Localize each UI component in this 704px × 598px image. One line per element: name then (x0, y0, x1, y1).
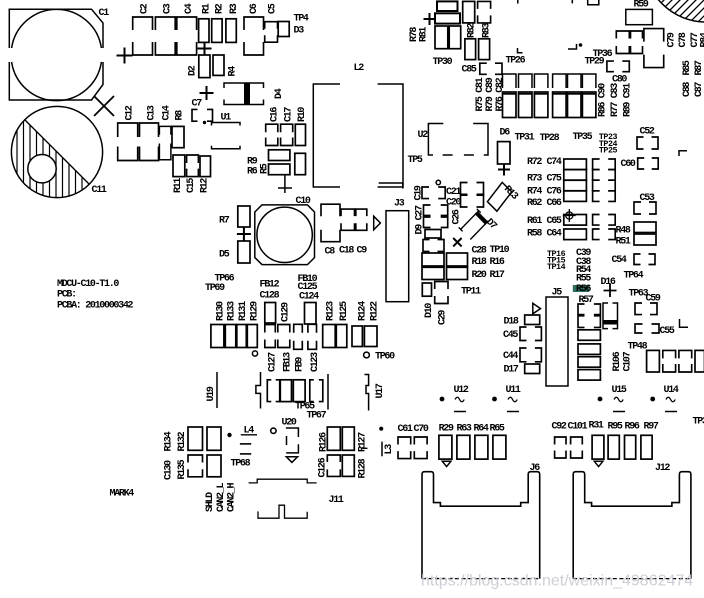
capacitor C17 (281, 124, 293, 132)
svg-text:D6: D6 (500, 128, 511, 139)
pad 1 right edge (647, 350, 660, 372)
svg-text:R10: R10 (297, 107, 308, 122)
pad column 1 upper bracket (503, 74, 517, 88)
connector J11 bottom edge (258, 505, 307, 518)
capacitor C130 pad (188, 455, 203, 463)
svg-text:R125: R125 (339, 301, 350, 321)
resistor R95 (608, 435, 619, 459)
capacitor C11 circle (11, 106, 102, 197)
svg-text:D5: D5 (219, 250, 230, 261)
svg-text:U19: U19 (206, 386, 217, 401)
capacitor C64 bracket (593, 229, 600, 240)
svg-text:R86 C90: R86 C90 (598, 83, 609, 117)
svg-text:C21: C21 (446, 187, 461, 198)
svg-text:D18: D18 (504, 317, 519, 328)
capacitor bracket row1 right of J5 (578, 304, 585, 315)
capacitor C124 pad (305, 303, 317, 325)
svg-text:R123: R123 (326, 301, 337, 321)
FB13 pad (278, 325, 290, 333)
capacitor C1 circle (12, 9, 102, 100)
svg-text:TP26: TP26 (506, 56, 526, 67)
svg-text:C45: C45 (503, 330, 518, 341)
svg-text:C44: C44 (503, 351, 518, 362)
resistor R96 (625, 435, 636, 459)
svg-text:R7: R7 (219, 216, 230, 227)
svg-text:MDCU-C10-T1.0: MDCU-C10-T1.0 (57, 279, 119, 290)
svg-text:R20: R20 (472, 270, 487, 281)
capacitor C7 (192, 109, 198, 121)
svg-text:FB13: FB13 (283, 352, 294, 372)
svg-text:D16: D16 (601, 277, 616, 288)
svg-text:R31: R31 (589, 421, 604, 432)
corner mark right of C55 (680, 319, 689, 327)
svg-text:C2: C2 (140, 3, 151, 14)
resistor pad row6 right of J5 (578, 370, 600, 381)
resistor R73 pad (564, 170, 587, 181)
svg-text:R122: R122 (370, 301, 381, 321)
capacitor C1 outline square (9, 9, 103, 100)
pin1 ring left of U20 (271, 428, 276, 433)
svg-text:R5: R5 (260, 163, 271, 174)
C129 pad (265, 325, 276, 333)
arrow marker right of C9 (374, 216, 381, 230)
svg-text:TP28: TP28 (540, 133, 560, 144)
pad column 4 lower pad (553, 92, 567, 118)
capacitor C101 (571, 437, 583, 445)
plus mark above D2 (198, 42, 212, 56)
diode D4 (224, 83, 264, 88)
svg-text:CAN2_L: CAN2_L (216, 482, 227, 512)
svg-text:R96: R96 (625, 422, 640, 433)
inductor L2 (313, 84, 403, 187)
svg-text:C75: C75 (547, 174, 562, 185)
resistor R61 pad (564, 215, 587, 226)
capacitor C21 bracket (461, 183, 468, 195)
X mark near C28 (453, 238, 461, 246)
svg-text:R82: R82 (467, 23, 478, 38)
resistor R9 block (269, 150, 290, 161)
svg-text:C128: C128 (260, 291, 280, 302)
svg-text:PCB:: PCB: (57, 290, 76, 301)
corner mark right of C60 (679, 151, 687, 156)
svg-text:R77 C83: R77 C83 (610, 83, 621, 117)
capacitor C2 (133, 17, 153, 30)
resistor R124 (352, 326, 362, 347)
capacitor C4 (177, 17, 197, 30)
svg-text:U11: U11 (506, 385, 521, 396)
pad column 6 upper bracket (582, 74, 596, 88)
resistor R2 (212, 19, 222, 43)
plus below D6 (498, 164, 510, 176)
svg-text:C3: C3 (162, 3, 173, 14)
svg-text:R16: R16 (490, 257, 505, 268)
C7 pin1 dot (203, 121, 206, 124)
svg-text:J11: J11 (329, 495, 344, 506)
svg-text:C79: C79 (667, 32, 678, 47)
pad column 6 lower pad (582, 92, 596, 118)
svg-text:TP11: TP11 (461, 287, 481, 298)
resistor R83 lower (479, 39, 490, 60)
capacitor C70 (414, 437, 427, 445)
capacitor C20 bracket (461, 195, 468, 207)
svg-text:CAN2_H: CAN2_H (227, 482, 238, 512)
svg-text:C64: C64 (547, 229, 562, 240)
plus mark near C7 (200, 86, 214, 100)
FB group pad1 (267, 380, 271, 402)
FB group pad2 (280, 380, 291, 402)
resistor R134 pad (188, 427, 203, 450)
svg-text:R12: R12 (200, 178, 211, 193)
IC U17 outline (365, 375, 369, 411)
capacitor C5 (265, 22, 278, 29)
svg-text:D2: D2 (188, 65, 199, 76)
svg-text:TP35: TP35 (573, 132, 593, 143)
svg-text:R84: R84 (700, 32, 704, 47)
resistor R18 pad (422, 253, 444, 266)
pad 3 right edge (679, 350, 692, 358)
svg-text:R135: R135 (177, 459, 188, 479)
resistor R74 pad (564, 180, 587, 191)
svg-text:L2: L2 (354, 63, 365, 74)
diode D7 rotated (459, 209, 489, 240)
svg-text:C92: C92 (552, 422, 567, 433)
svg-text:C26: C26 (452, 209, 463, 224)
svg-text:TP69: TP69 (205, 283, 225, 294)
svg-text:TP30: TP30 (433, 57, 453, 68)
svg-text:C66: C66 (547, 198, 562, 209)
plus left of L1 (424, 13, 436, 25)
svg-text:D10: D10 (424, 303, 435, 318)
svg-text:R134: R134 (164, 431, 175, 451)
svg-text:R56: R56 (576, 284, 591, 295)
capacitor C8 (321, 204, 340, 216)
svg-text:TP60: TP60 (375, 352, 395, 363)
svg-text:R128: R128 (358, 458, 369, 478)
inductor L4 pads (240, 443, 251, 445)
tick above TP26 (517, 0, 519, 4)
R129 pad (247, 325, 257, 348)
test point line below R6 (284, 175, 286, 193)
svg-text:J3: J3 (394, 199, 405, 210)
capacitor C6 (244, 17, 264, 30)
svg-text:R76 C82: R76 C82 (495, 77, 506, 111)
C10 circle (257, 207, 312, 262)
svg-text:R72: R72 (527, 157, 542, 168)
svg-text:C123: C123 (310, 352, 321, 372)
resistor R4 (213, 55, 224, 75)
capacitor C19 (422, 187, 429, 199)
capacitor C14 (159, 126, 171, 134)
IC U19 line (216, 372, 218, 408)
X mark below C1 (94, 96, 114, 116)
capacitor C28 bracket (423, 240, 430, 252)
diode D5 (238, 241, 250, 263)
svg-text:TP4: TP4 (294, 14, 309, 25)
resistor pad row3 right of J5 (578, 330, 600, 341)
resistor R97 (641, 435, 652, 459)
triangle marker below R31 (594, 461, 603, 466)
pad 2 right edge (663, 350, 676, 358)
svg-text:https://blog.csdn.net/weixin_4: https://blog.csdn.net/weixin_49862474 (421, 573, 693, 590)
svg-text:C76: C76 (547, 187, 562, 198)
connector J12 (573, 472, 691, 579)
capacitor C18 (341, 209, 355, 216)
pad column 5 lower pad (568, 92, 582, 118)
svg-text:R18: R18 (472, 257, 487, 268)
svg-text:R85: R85 (682, 60, 693, 75)
svg-text:C12: C12 (125, 105, 136, 120)
capacitor C61 (398, 437, 411, 445)
svg-text:R65: R65 (490, 424, 505, 435)
pad column 2 upper bracket (519, 74, 533, 88)
resistor R58 pad (564, 229, 587, 240)
capacitor C66 bracket (593, 191, 600, 202)
svg-text:D3: D3 (294, 26, 305, 37)
svg-text:D17: D17 (504, 365, 519, 376)
svg-text:R4: R4 (228, 66, 239, 77)
svg-text:R51: R51 (616, 237, 631, 248)
resistor pad row4 right of J5 (578, 344, 600, 355)
svg-text:U1: U1 (221, 113, 232, 124)
pad column 4 upper bracket (553, 74, 567, 88)
svg-text:R59: R59 (634, 0, 649, 11)
capacitor C27 bracket row2 (424, 217, 431, 228)
op-amp U1 outline (212, 123, 241, 126)
capacitor C55 bracket (635, 324, 643, 333)
label R56 highlighted (573, 285, 590, 292)
capacitor C76 bracket (593, 180, 600, 191)
right line of FB group (327, 374, 329, 410)
svg-text:TP48: TP48 (628, 342, 648, 353)
svg-text:C78: C78 (678, 32, 689, 47)
svg-text:C61: C61 (398, 424, 413, 435)
svg-text:R6: R6 (247, 167, 258, 178)
svg-text:C124: C124 (299, 292, 319, 303)
pad below C27 (425, 230, 441, 239)
diode D10 (422, 283, 431, 296)
resistor R5 (295, 153, 306, 174)
svg-text:R63: R63 (457, 424, 472, 435)
capacitor C74 bracket (593, 159, 600, 170)
tick top edge x572 (571, 0, 573, 3)
pad column 5 upper bracket (568, 74, 582, 88)
svg-text:U12: U12 (454, 385, 469, 396)
svg-text:L3: L3 (384, 444, 395, 455)
resistor R132 pad (207, 427, 221, 450)
resistor R82 lower (465, 39, 476, 60)
svg-text:U15: U15 (612, 385, 627, 396)
pad right of C126 (342, 455, 354, 476)
R130 pad (211, 325, 224, 348)
plus D16 (604, 284, 617, 297)
svg-text:C1: C1 (99, 8, 110, 19)
svg-text:C13: C13 (147, 105, 158, 120)
svg-text:C14: C14 (162, 105, 173, 120)
capacitor C16 (266, 124, 278, 132)
resistor R82 upper (463, 1, 475, 23)
resistor R78 (435, 26, 448, 49)
svg-text:U14: U14 (664, 385, 679, 396)
corner mark TP36 with dot (568, 44, 577, 49)
svg-text:C107: C107 (623, 351, 634, 371)
svg-text:C85: C85 (462, 65, 477, 76)
resistor R10 (295, 124, 305, 145)
pad column 3 upper bracket (534, 74, 548, 88)
svg-text:C9: C9 (357, 246, 368, 257)
R131 pad (237, 325, 247, 348)
svg-text:R124: R124 (358, 301, 369, 321)
svg-text:C7: C7 (192, 99, 203, 110)
R133 pad (225, 325, 236, 348)
svg-text:R130: R130 (216, 301, 227, 321)
svg-text:R131: R131 (238, 301, 249, 321)
C123 pad (308, 324, 317, 333)
svg-text:U20: U20 (282, 418, 297, 429)
resistor R31 (592, 435, 604, 459)
capacitor bracket row2 right of J5 (578, 316, 585, 328)
svg-text:R106: R106 (612, 351, 623, 371)
svg-text:TP68: TP68 (231, 459, 251, 470)
capacitor C128 pad (265, 303, 276, 324)
svg-text:C29: C29 (438, 310, 449, 325)
pin1 circle above C21 (436, 180, 440, 184)
svg-text:PCBA: 2010000342: PCBA: 2010000342 (57, 301, 134, 312)
svg-text:R1: R1 (202, 3, 213, 14)
dot above L3 (379, 427, 383, 431)
capacitor C80 (607, 61, 614, 72)
svg-text:R8: R8 (175, 110, 186, 121)
IC U20 outline (286, 428, 299, 437)
capacitor C65 bracket (593, 215, 600, 226)
svg-text:C60: C60 (621, 159, 636, 170)
resistor R17 pad (447, 267, 468, 279)
capacitor C15 (187, 155, 199, 163)
svg-text:R64: R64 (474, 424, 489, 435)
resistor R63 (457, 435, 470, 459)
svg-text:C11: C11 (92, 185, 107, 196)
U20 triangle (286, 457, 297, 463)
resistor R6 block (269, 164, 290, 175)
svg-text:SHLD: SHLD (205, 492, 216, 512)
svg-text:J12: J12 (655, 463, 670, 474)
svg-text:C88: C88 (682, 82, 693, 97)
triangle marker below R29 (442, 461, 451, 466)
svg-text:R61: R61 (527, 216, 542, 227)
svg-text:R17: R17 (490, 270, 505, 281)
plus polarity mark near C2 (117, 48, 133, 64)
FB group pad4 (310, 380, 314, 402)
resistor R135 pad (207, 455, 221, 477)
resistor R11 (173, 155, 185, 177)
pad 4 right edge (695, 350, 704, 372)
pin1 ring below R129 (252, 351, 257, 356)
svg-text:R58: R58 (527, 229, 542, 240)
triangle above D18 (533, 303, 541, 314)
resistor R65 (493, 435, 506, 459)
connector J5 (546, 297, 568, 386)
svg-text:C17: C17 (284, 107, 295, 122)
svg-text:TP67: TP67 (307, 411, 327, 422)
capacitor C29 (435, 282, 448, 290)
svg-text:FB9: FB9 (295, 357, 306, 372)
capacitor R83 upper bracket (478, 1, 491, 8)
svg-text:C87: C87 (694, 82, 704, 97)
capacitor C78 large bracket (644, 29, 664, 42)
svg-text:C74: C74 (547, 157, 562, 168)
svg-text:J6: J6 (530, 463, 541, 474)
pad column 3 lower pad (534, 92, 548, 118)
svg-text:R11: R11 (173, 178, 184, 193)
svg-text:TP33: TP33 (693, 417, 704, 428)
capacitor C126 pad (327, 455, 340, 462)
svg-text:R3: R3 (229, 3, 240, 14)
left line of FB group (256, 372, 261, 409)
C11 inner circle (28, 155, 56, 183)
diode D2 (199, 55, 210, 78)
resistor R126 pad (327, 427, 340, 450)
svg-text:C70: C70 (414, 424, 429, 435)
svg-text:R83: R83 (482, 23, 493, 38)
svg-text:U2: U2 (418, 130, 429, 141)
FB9 pad (294, 324, 303, 333)
svg-text:TP5: TP5 (408, 155, 423, 166)
svg-text:R29: R29 (439, 424, 454, 435)
svg-text:C101: C101 (568, 422, 588, 433)
dot left of L4 (227, 433, 231, 437)
R123 pad (323, 325, 336, 348)
resistor pad row5 right of J5 (578, 357, 600, 368)
inductor L1 pads top (437, 1, 458, 11)
capacitor C10 square (255, 205, 315, 265)
svg-text:MARK4: MARK4 (110, 489, 135, 500)
svg-text:R129: R129 (250, 301, 261, 321)
pad right of R126 (342, 427, 354, 450)
svg-text:C129: C129 (281, 302, 292, 322)
capacitor with thick bar right (603, 303, 608, 329)
svg-text:C80: C80 (612, 75, 627, 86)
resistor R64 (475, 435, 488, 459)
svg-text:TP29: TP29 (585, 57, 605, 68)
test point TP60 (364, 352, 370, 358)
svg-text:R132: R132 (177, 431, 188, 451)
svg-text:R89 C91: R89 C91 (623, 83, 634, 117)
resistor R16 pad (447, 253, 468, 266)
svg-text:C4: C4 (184, 3, 195, 14)
connector J6 (422, 472, 540, 579)
resistor R8 (172, 126, 184, 147)
svg-text:C15: C15 (186, 178, 197, 193)
svg-text:R74: R74 (527, 187, 542, 198)
resistor R59 (626, 9, 653, 24)
cap bottom bracket at top edge (588, 0, 599, 5)
svg-text:C8: C8 (325, 247, 336, 258)
R125 pad (336, 325, 347, 348)
svg-text:R81: R81 (419, 27, 430, 42)
capacitor pair below R59 mid (631, 31, 643, 39)
svg-text:C55: C55 (660, 326, 675, 337)
resistor R20 pad (422, 267, 444, 279)
svg-text:C127: C127 (268, 352, 279, 372)
resistor R13 rotated (487, 182, 511, 211)
resistor R29 (439, 435, 452, 459)
svg-text:TP31: TP31 (515, 133, 535, 144)
resistor R3 (226, 19, 236, 43)
svg-text:R73: R73 (527, 174, 542, 185)
svg-text:C5: C5 (268, 3, 279, 14)
svg-text:R48: R48 (616, 226, 631, 237)
capacitor C85 (480, 63, 487, 74)
svg-text:C16: C16 (270, 107, 281, 122)
